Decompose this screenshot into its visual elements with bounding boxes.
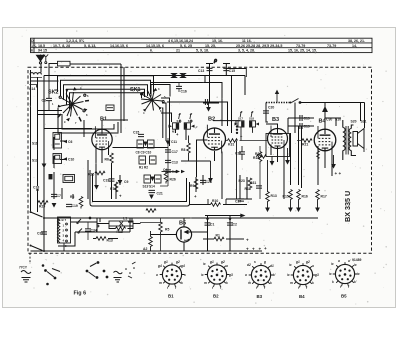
svg-text:C19: C19	[304, 117, 310, 121]
resistor R19	[258, 152, 262, 164]
AF box outer U	[90, 170, 190, 206]
svg-text:73-79: 73-79	[296, 44, 305, 48]
svg-text:C34: C34	[91, 229, 97, 233]
svg-text:77CY: 77CY	[19, 266, 28, 270]
trimmer above B1	[106, 105, 114, 111]
wire R15R16R17 drops	[291, 126, 319, 188]
svg-text:+: +	[194, 194, 197, 199]
wire B1 top	[102, 120, 128, 129]
band switch SK1	[141, 90, 165, 111]
svg-text:g2: g2	[175, 260, 180, 264]
trimmer pair S13 S14	[144, 175, 161, 183]
svg-text:+: +	[259, 247, 262, 252]
svg-text:B 7: B 7	[62, 218, 67, 222]
coupling line with arrows	[162, 171, 177, 173]
svg-text:B4: B4	[299, 294, 305, 299]
svg-text:k: k	[226, 281, 228, 285]
wire B4 to transformer	[335, 118, 337, 126]
chassis dashed boundary	[28, 67, 372, 253]
svg-text:38, 26, 21.: 38, 26, 21.	[348, 39, 365, 43]
svg-text:R7: R7	[110, 187, 114, 191]
svg-text:B3: B3	[257, 294, 263, 299]
capacitor C26	[239, 152, 245, 154]
wire shield box C16	[151, 85, 170, 97]
resistor K31	[228, 139, 238, 143]
spare contact marks	[125, 262, 135, 278]
wire B3 top feed	[266, 103, 278, 129]
heater ballast	[58, 217, 71, 251]
svg-text:14,: 14,	[352, 44, 357, 48]
svg-text:6.: 6.	[150, 49, 153, 53]
svg-text:R25: R25	[88, 173, 94, 177]
wire B2 left x205	[204, 76, 206, 83]
svg-text:a: a	[312, 264, 314, 268]
svg-text:C16: C16	[181, 90, 187, 94]
svg-text:C20: C20	[268, 106, 274, 110]
wire B3 bottom	[271, 145, 284, 200]
svg-text:SK1: SK1	[130, 87, 141, 93]
wire beaded shield lead	[266, 102, 290, 104]
tube socket view B2	[201, 260, 233, 299]
svg-text:m: m	[290, 281, 293, 285]
bead column B2 right	[236, 125, 238, 134]
svg-text:1,2,3,4, 5¾: 1,2,3,4, 5¾	[66, 39, 85, 43]
output pentode B4	[314, 126, 336, 154]
svg-text:R1 R2: R1 R2	[139, 166, 148, 170]
alignment data table	[31, 38, 373, 52]
resistor R6	[110, 153, 114, 165]
svg-text:11 16.: 11 16.	[242, 39, 252, 43]
capacitor C23 on phono line	[205, 99, 207, 105]
capacitor C19	[109, 179, 115, 181]
svg-text:BX 335 U: BX 335 U	[343, 191, 352, 222]
svg-text:B2: B2	[208, 117, 215, 123]
svg-text:a: a	[245, 273, 247, 277]
svg-text:S20: S20	[351, 120, 357, 124]
trimmer C10	[63, 157, 67, 160]
svg-text:14,15,15, 6: 14,15,15, 6	[146, 44, 164, 48]
resistor R20	[38, 201, 48, 205]
wire rail y218	[44, 217, 318, 219]
wire B2 feed y82.5	[150, 83, 222, 127]
svg-text:1¼, 18.5: 1¼, 18.5	[31, 44, 45, 48]
svg-text:ic: ic	[287, 273, 290, 277]
tube socket view B5	[329, 259, 360, 299]
svg-text:B5: B5	[341, 294, 347, 299]
loudspeaker	[353, 128, 364, 152]
svg-text:C19: C19	[72, 204, 78, 208]
svg-text:15, 16.: 15, 16.	[212, 39, 223, 43]
svg-text:S10: S10	[335, 118, 341, 122]
shield box B3	[266, 134, 290, 157]
resistor R7	[114, 182, 118, 194]
svg-text:+: +	[119, 194, 122, 199]
heater taps	[77, 217, 99, 233]
svg-text:B3: B3	[272, 117, 279, 123]
ground arrows under B4	[331, 164, 336, 169]
svg-text:s: s	[184, 273, 186, 277]
ground under S13	[42, 164, 47, 169]
svg-text:B5: B5	[179, 221, 186, 227]
svg-text:g1: g1	[163, 260, 168, 264]
svg-text:C17: C17	[172, 150, 178, 154]
coil box S2	[53, 133, 62, 149]
resistor R22	[95, 171, 105, 175]
svg-text:C31: C31	[250, 181, 256, 185]
wire C15 drop	[223, 64, 230, 76]
svg-text:R1: R1	[216, 234, 220, 238]
resistor R8	[187, 143, 191, 155]
band switch SK2	[58, 92, 89, 121]
AVC arrow	[206, 107, 211, 112]
svg-text:ic: ic	[289, 263, 292, 267]
svg-text:k: k	[181, 281, 183, 285]
svg-text:K31: K31	[228, 143, 234, 147]
IF trimmer T2	[184, 123, 194, 129]
svg-text:R11: R11	[245, 187, 251, 191]
AF box inner U	[93, 174, 187, 202]
svg-text:R13: R13	[107, 239, 113, 243]
svg-text:R6: R6	[70, 195, 74, 199]
wire rail A y75.5	[44, 75, 245, 77]
capacitor C1	[205, 223, 211, 225]
resistor R1	[214, 237, 224, 241]
svg-text:R20: R20	[39, 205, 45, 209]
resistor R17	[316, 190, 320, 202]
svg-text:ic: ic	[329, 272, 332, 276]
svg-text:R5: R5	[165, 228, 169, 232]
wire x121 vertical to B1	[70, 64, 124, 133]
resistor A2	[149, 237, 153, 249]
svg-text:73-79: 73-79	[327, 44, 336, 48]
svg-text:ic: ic	[203, 262, 206, 266]
wire B3-B4 coupling y118/y126	[288, 118, 314, 133]
svg-text:R9: R9	[190, 184, 194, 188]
svg-text:94 15: 94 15	[38, 49, 47, 53]
svg-text:5, 9, 18.: 5, 9, 18.	[196, 49, 209, 53]
resistor R13	[96, 237, 106, 241]
svg-text:R26: R26	[170, 178, 176, 182]
coil box S4	[53, 154, 62, 164]
svg-text:R15: R15	[283, 195, 289, 199]
svg-text:C1: C1	[210, 223, 214, 227]
svg-text:S21: S21	[361, 120, 367, 124]
capacitor C13a	[165, 160, 171, 162]
trimmer pair C8 C9	[137, 140, 154, 148]
svg-text:C27: C27	[235, 200, 241, 204]
resistor R26b	[164, 172, 168, 184]
svg-text:R23: R23	[239, 179, 245, 183]
tube socket view B4	[287, 260, 319, 299]
wire B5 leads	[151, 218, 185, 251]
svg-text:3, 5, 4, 28.: 3, 5, 4, 28.	[238, 49, 255, 53]
svg-text:C30: C30	[326, 118, 332, 122]
aerial dipole A2	[43, 54, 48, 63]
wire junction T y103	[203, 102, 219, 104]
svg-text:f²: f²	[196, 126, 198, 130]
svg-text:C2: C2	[233, 223, 237, 227]
svg-text:4 6,15,16,18,24: 4 6,15,16,18,24	[168, 39, 193, 43]
capacitor C31	[256, 186, 262, 188]
svg-text:+: +	[252, 247, 255, 252]
svg-text:+ +: + +	[335, 171, 342, 176]
svg-text:R30: R30	[255, 152, 261, 156]
link box	[49, 61, 70, 70]
wire B2 bottom	[197, 140, 223, 199]
wire left col verticals	[38, 137, 67, 212]
svg-text:g1: g1	[209, 260, 214, 264]
svg-text:C4: C4	[172, 170, 176, 174]
capacitor C18a	[36, 189, 38, 191]
output transformer S9	[343, 120, 356, 160]
svg-text:R21: R21	[302, 143, 308, 147]
wire SK2 loop down	[58, 108, 118, 137]
capacitor C3	[46, 98, 52, 100]
svg-text:C6: C6	[68, 140, 72, 144]
svg-text:15, 16, 25, 14, 15.: 15, 16, 25, 14, 15.	[288, 49, 317, 53]
B4 anode arrow	[322, 106, 328, 112]
resistor R9	[194, 179, 198, 191]
svg-text:5, 6, 25: 5, 6, 25	[180, 44, 192, 48]
svg-text:+: +	[264, 246, 267, 251]
wire B4 bottom	[318, 146, 332, 176]
svg-text:C10: C10	[68, 158, 74, 162]
svg-text:k': k'	[354, 280, 357, 284]
svg-text:g2: g2	[305, 260, 310, 264]
wire bottom mid verticals	[196, 175, 247, 199]
antenna coil	[30, 73, 42, 78]
ground arrow B1 cathode	[94, 185, 99, 190]
svg-text:D: D	[31, 39, 34, 43]
wire C1 C2 verticals	[208, 216, 231, 252]
svg-text:15, 25,: 15, 25,	[205, 44, 216, 48]
svg-text:R16: R16	[302, 195, 308, 199]
capacitor C7	[51, 194, 57, 196]
svg-text:A2: A2	[143, 247, 147, 251]
svg-text:6: 6	[31, 49, 33, 53]
wire switch to B4 region	[300, 103, 365, 129]
resistor R21	[302, 139, 312, 143]
wire rail y251	[31, 250, 263, 252]
capacitor C19b	[66, 204, 72, 206]
mains switch contacts	[30, 211, 32, 213]
svg-text:SK2: SK2	[48, 90, 59, 96]
tube socket view B3	[245, 260, 276, 299]
svg-text:g3: g3	[314, 273, 319, 277]
svg-text:S16: S16	[188, 119, 193, 123]
svg-text:91489: 91489	[352, 258, 362, 262]
svg-text:s: s	[254, 260, 256, 264]
wire left bottom verticals	[54, 160, 120, 199]
capacitor C9 arrow	[118, 180, 123, 185]
resistor R11	[248, 178, 252, 190]
resistor B4 cathode	[317, 151, 320, 161]
resistor R16	[297, 190, 301, 202]
svg-text:S13: S13	[32, 159, 38, 163]
svg-text:C19: C19	[304, 125, 310, 129]
capacitor C15	[223, 68, 229, 70]
svg-text:m: m	[204, 281, 207, 285]
svg-text:C7: C7	[57, 194, 61, 198]
svg-text:R17: R17	[321, 195, 327, 199]
svg-text:5, 8-13,: 5, 8-13,	[84, 44, 96, 48]
wire rail y128.5 left	[44, 128, 92, 130]
svg-text:C32: C32	[37, 232, 43, 236]
svg-text:R10: R10	[212, 199, 218, 203]
svg-text:+: +	[246, 247, 249, 252]
wire B4 top	[295, 103, 341, 134]
svg-text:d2: d2	[247, 263, 251, 267]
resistor R26	[79, 197, 83, 209]
svg-text:k: k	[270, 281, 272, 285]
ground arrow bottom-left	[52, 203, 57, 208]
scan speckle	[7, 30, 392, 305]
svg-text:ic: ic	[354, 263, 357, 267]
wire antenna drop x37.5	[38, 64, 42, 186]
wire B1 bottom	[96, 144, 109, 185]
svg-text:+: +	[246, 238, 249, 243]
mains cord symbols	[21, 271, 122, 283]
svg-text:a': a'	[348, 259, 351, 263]
wire bottom switch links	[31, 212, 43, 251]
wire bus x44	[43, 76, 45, 251]
phono input P	[207, 58, 229, 64]
wire lamp L1 loop	[100, 218, 132, 222]
resistor R5	[159, 222, 163, 234]
svg-text:C8 C9 C10: C8 C9 C10	[136, 151, 152, 155]
capacitor C13	[207, 68, 213, 70]
capacitor C28	[200, 180, 206, 182]
svg-text:g2: g2	[220, 260, 225, 264]
svg-text:k: k	[312, 281, 314, 285]
svg-text:C14: C14	[29, 87, 35, 91]
pentode B1	[92, 126, 112, 153]
svg-text:ic: ic	[201, 273, 204, 277]
wire left bus x30.5	[30, 70, 32, 211]
svg-text:B4: B4	[319, 119, 327, 125]
svg-text:C19: C19	[103, 179, 109, 183]
svg-text:g4: g4	[180, 264, 185, 268]
wire harness loops over SK2	[58, 76, 154, 92]
svg-text:m: m	[248, 281, 251, 285]
svg-text:S17: S17	[238, 117, 243, 121]
svg-text:C21: C21	[157, 192, 163, 196]
coil box S7	[63, 175, 75, 183]
capacitor C19c	[300, 115, 302, 121]
svg-text:g4: g4	[157, 264, 162, 268]
svg-text:k: k	[332, 280, 334, 284]
wire C15 hook	[226, 69, 246, 78]
junction arrows C1 C2	[206, 218, 233, 222]
svg-text:a: a	[338, 259, 340, 263]
wire SK2 left links	[38, 111, 63, 115]
svg-text:R8: R8	[181, 148, 185, 152]
svg-text:C15: C15	[229, 69, 235, 73]
capacitor C34	[85, 229, 91, 231]
trimmer C6	[63, 140, 67, 143]
svg-text:k': k'	[273, 273, 276, 277]
svg-text:d1: d1	[270, 264, 274, 268]
resistor R18	[116, 227, 126, 231]
resistor R3	[146, 209, 156, 213]
wire phono drop x211	[206, 64, 213, 104]
wire phono line y102	[167, 76, 245, 127]
svg-text:C11: C11	[171, 140, 177, 144]
svg-text:ic: ic	[331, 262, 334, 266]
box to mains stub	[29, 253, 31, 264]
plug switch 2	[86, 262, 108, 279]
svg-text:10-7, 8, 28: 10-7, 8, 28	[53, 44, 70, 48]
svg-text:C15: C15	[133, 131, 139, 135]
svg-text:21: 21	[176, 49, 180, 53]
capacitor C21	[149, 190, 156, 192]
wire harness SK1 right	[161, 98, 172, 146]
svg-text:C3: C3	[42, 99, 46, 103]
rectifier B5	[176, 227, 207, 242]
capacitor C4	[165, 170, 171, 172]
IF trimmer T1	[169, 123, 179, 129]
svg-text:C9: C9	[124, 180, 128, 184]
wire arrow rail y215.5	[205, 215, 241, 217]
svg-text:a: a	[226, 264, 228, 268]
junction X1	[172, 74, 186, 78]
trimmer pair S8 S9	[139, 156, 156, 164]
svg-text:C13: C13	[172, 161, 178, 165]
wire B2 right vertical	[231, 76, 233, 134]
wire link drop	[48, 64, 50, 76]
svg-text:g1: g1	[295, 260, 300, 264]
svg-text:B2: B2	[213, 294, 219, 299]
capacitor C32	[41, 232, 47, 234]
capacitor C2	[227, 223, 233, 225]
svg-text:ic: ic	[357, 272, 360, 276]
svg-text:B1: B1	[168, 294, 174, 299]
capacitor C11	[166, 141, 171, 146]
capacitor C17	[165, 150, 171, 152]
svg-text:C26: C26	[235, 152, 241, 156]
pentode B3	[268, 126, 288, 152]
switch contact	[292, 99, 299, 103]
aerial arrow A1	[37, 55, 45, 64]
resistor R10	[211, 203, 221, 207]
svg-text:S11: S11	[32, 142, 38, 146]
HT rail arrowhead	[240, 214, 245, 218]
capacitor C16	[176, 86, 182, 88]
pickup arrow	[275, 90, 279, 94]
svg-text:R6: R6	[105, 158, 109, 162]
svg-text:m: m	[159, 281, 162, 285]
svg-text:B1: B1	[100, 117, 107, 123]
svg-text:C18: C18	[33, 186, 39, 190]
wire B1 plate right	[113, 147, 169, 149]
svg-text:S18: S18	[249, 117, 254, 121]
svg-text:C13: C13	[198, 69, 204, 73]
svg-text:ρ: ρ	[213, 58, 217, 64]
svg-text:S15: S15	[177, 119, 182, 123]
svg-text:R13: R13	[271, 194, 277, 198]
trimmer blob	[49, 174, 53, 179]
capacitor C27	[238, 199, 244, 201]
tube socket view B1	[156, 260, 186, 299]
pentode B2	[204, 125, 226, 154]
svg-text:R18: R18	[117, 230, 123, 234]
svg-text:Fig 6: Fig 6	[74, 291, 87, 297]
wire IF col	[160, 138, 168, 186]
wire heater box leads	[58, 218, 130, 246]
resistor R15	[289, 190, 293, 202]
svg-text:25,26 25-28 28, 29,5 29-34,5: 25,26 25-28 28, 29,5 29-34,5	[236, 44, 282, 48]
wire rail y199 right	[226, 198, 252, 200]
